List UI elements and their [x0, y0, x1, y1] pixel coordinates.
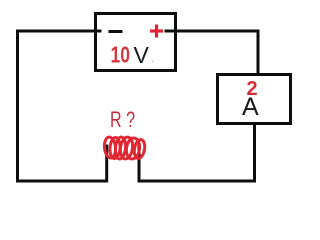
svg-text:10: 10: [111, 42, 131, 68]
svg-text:R ?: R ?: [110, 107, 135, 132]
svg-text:A: A: [242, 93, 259, 121]
svg-text:V: V: [134, 42, 150, 68]
